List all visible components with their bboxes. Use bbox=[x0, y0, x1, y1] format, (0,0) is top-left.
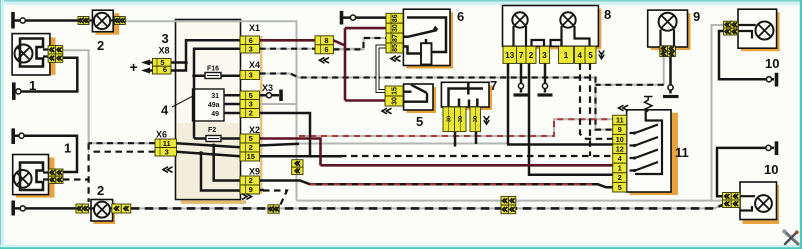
svg-text:49: 49 bbox=[211, 111, 219, 118]
svg-text:6: 6 bbox=[324, 45, 328, 54]
svg-text:F16: F16 bbox=[207, 66, 219, 73]
svg-text:F2: F2 bbox=[208, 127, 216, 134]
svg-text:10: 10 bbox=[765, 56, 779, 71]
svg-text:1: 1 bbox=[64, 141, 71, 156]
svg-text:9: 9 bbox=[618, 125, 622, 134]
svg-text:86: 86 bbox=[392, 14, 399, 22]
svg-text:30: 30 bbox=[392, 24, 399, 32]
svg-text:2: 2 bbox=[618, 173, 622, 182]
svg-text:3: 3 bbox=[249, 100, 253, 109]
svg-text:30: 30 bbox=[458, 116, 464, 122]
svg-text:1: 1 bbox=[29, 78, 36, 93]
svg-text:3: 3 bbox=[162, 31, 169, 46]
svg-text:4: 4 bbox=[578, 51, 583, 60]
svg-text:X9: X9 bbox=[249, 167, 260, 177]
svg-text:11: 11 bbox=[675, 145, 689, 160]
svg-text:5: 5 bbox=[618, 183, 622, 192]
svg-text:6: 6 bbox=[457, 9, 464, 24]
svg-text:49a: 49a bbox=[208, 102, 220, 109]
svg-text:4: 4 bbox=[618, 154, 622, 163]
svg-text:+: + bbox=[130, 59, 138, 75]
svg-text:87: 87 bbox=[392, 34, 399, 42]
svg-text:30: 30 bbox=[447, 116, 453, 122]
svg-text:7: 7 bbox=[490, 78, 497, 93]
svg-text:2: 2 bbox=[97, 38, 104, 53]
svg-text:2: 2 bbox=[249, 176, 253, 185]
svg-text:X2: X2 bbox=[249, 125, 260, 135]
svg-text:2: 2 bbox=[249, 143, 253, 152]
svg-text:2: 2 bbox=[97, 183, 104, 198]
svg-text:X6: X6 bbox=[156, 130, 167, 140]
svg-text:9: 9 bbox=[693, 9, 700, 24]
svg-text:11: 11 bbox=[616, 116, 624, 125]
svg-text:15: 15 bbox=[392, 87, 399, 95]
svg-text:5: 5 bbox=[249, 134, 253, 143]
svg-text:1: 1 bbox=[618, 164, 622, 173]
svg-text:13: 13 bbox=[505, 51, 514, 60]
svg-text:2: 2 bbox=[529, 51, 534, 60]
svg-text:X8: X8 bbox=[159, 46, 170, 56]
svg-text:X4: X4 bbox=[249, 60, 260, 70]
svg-text:30: 30 bbox=[473, 116, 479, 122]
svg-text:85: 85 bbox=[392, 44, 399, 52]
svg-text:9: 9 bbox=[249, 185, 253, 194]
svg-text:5: 5 bbox=[588, 51, 593, 60]
svg-text:10: 10 bbox=[616, 135, 624, 144]
svg-text:8: 8 bbox=[604, 7, 611, 22]
svg-text:12: 12 bbox=[616, 144, 624, 153]
svg-text:6: 6 bbox=[163, 65, 167, 74]
svg-text:8: 8 bbox=[324, 36, 328, 45]
svg-text:X3: X3 bbox=[262, 83, 273, 93]
svg-text:3: 3 bbox=[249, 44, 253, 53]
svg-text:15: 15 bbox=[247, 152, 255, 161]
svg-text:7: 7 bbox=[519, 51, 524, 60]
svg-text:3: 3 bbox=[249, 71, 253, 80]
svg-text:1: 1 bbox=[564, 51, 569, 60]
svg-text:2: 2 bbox=[249, 109, 253, 118]
svg-text:3: 3 bbox=[165, 147, 169, 156]
svg-text:3: 3 bbox=[542, 51, 547, 60]
svg-text:31: 31 bbox=[211, 93, 219, 100]
svg-text:4: 4 bbox=[161, 103, 169, 118]
svg-text:5: 5 bbox=[416, 114, 423, 129]
svg-text:X1: X1 bbox=[249, 23, 260, 33]
svg-text:5: 5 bbox=[249, 91, 253, 100]
svg-text:30: 30 bbox=[392, 97, 399, 105]
svg-text:10: 10 bbox=[764, 162, 778, 177]
